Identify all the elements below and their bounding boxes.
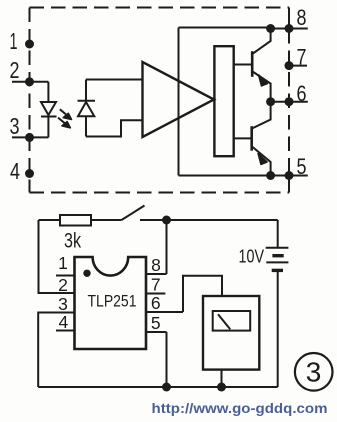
svg-text:TLP251: TLP251 [88,292,137,311]
inner receiver box [179,28,271,176]
wire chip pin 6 to meter [183,276,222,312]
svg-text:3k: 3k [64,230,81,253]
svg-text:3: 3 [10,113,20,139]
IC U1 TLP251 package [75,257,147,349]
svg-text:6: 6 [151,293,161,313]
chip pin 1 lead and label [56,253,75,276]
svg-text:5: 5 [297,154,307,179]
pin 3 label [10,113,20,139]
pin 8 dot [285,24,294,33]
pin 1 label [10,28,18,54]
wire meter to bottom rail [221,370,223,387]
node A (top rail junction) [162,216,171,225]
node dot emitter Q2 [266,171,275,180]
wire resistor to switch [91,219,122,221]
transistor Q2 (bottom output) [234,102,271,176]
svg-text:6: 6 [297,81,307,106]
chip pin 5 lead and label [146,313,167,333]
pin 6 dot [285,97,294,106]
pin 1 node dot [25,40,34,49]
chip pin 4 lead and label [56,312,75,332]
pin 4 node dot [25,169,34,178]
chip pin 3 label [58,294,68,314]
wire photodiode bottom to amp input (jogged) [86,120,143,136]
switch S1 (open blade) [122,206,145,221]
transistor Q1 (top output) [234,29,271,102]
wire top rail right [140,219,278,221]
svg-text:2: 2 [10,57,20,83]
meter M1 [203,296,259,370]
LED D1 (emitter diode) [41,82,57,138]
svg-text:4: 4 [59,312,69,332]
chip pin 7 lead and label [146,275,165,295]
node dot meter/ground junction [217,383,226,392]
svg-text:7: 7 [151,275,161,295]
watermark URL [152,401,328,416]
pin 4 label [10,158,20,184]
pin 8 lead and label [271,5,308,30]
figure number circle 3 [295,353,333,391]
svg-text:5: 5 [151,313,161,333]
pin 7 lead and label [289,45,307,70]
pin 2 label [10,57,20,83]
wire bottom rail [38,386,278,388]
chip pin 2 label [58,275,68,295]
resistor R1 3k [60,215,91,253]
wire chip pin 5 to bottom rail [166,332,168,387]
wire pin3 to LED cathode [12,136,48,138]
light emission arrows [58,109,72,128]
svg-text:3: 3 [58,294,68,314]
wire photodiode top to amp input [86,79,143,81]
pin 5 dot [285,171,294,180]
dashed package outline U1 (TLP251 internal diagram) [30,8,290,193]
chip pin 8 lead and label [146,255,167,275]
svg-text:8: 8 [297,5,307,30]
svg-text:7: 7 [297,45,307,70]
pin 3 node dot [25,133,34,142]
pin 6 lead and label [271,81,308,106]
wire left rail to chip pin 2 [39,220,75,293]
svg-text:1: 1 [58,253,68,273]
node dot collector Q1 [266,24,275,33]
wire pin2 to LED anode [12,81,48,83]
svg-text:8: 8 [151,255,161,275]
battery B1 10V [239,220,289,387]
svg-text:4: 4 [10,158,20,184]
chip pin 6 lead and label [146,293,183,313]
node dot pin5/ground junction [162,383,171,392]
wire junction down to chip pin 8 [166,220,168,274]
wire chip pin 3 to bottom rail [38,313,74,388]
pin 2 node dot [25,77,34,86]
svg-text:http://www.go-gddq.com: http://www.go-gddq.com [152,401,328,416]
node dot emitter junction [266,97,275,106]
pin 7 dot [285,61,294,70]
wire right edge solid segments [288,8,290,193]
svg-text:1: 1 [10,28,18,54]
svg-text:2: 2 [58,275,68,295]
op-amp A1 (amplifier triangle) [143,62,215,137]
wire top rail left [39,219,61,221]
svg-text:10V: 10V [239,247,265,267]
photodiode D2 [78,80,96,137]
pin 5 lead and label [271,154,308,179]
driver block [214,46,233,156]
svg-text:3: 3 [306,357,322,388]
